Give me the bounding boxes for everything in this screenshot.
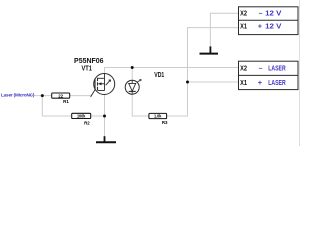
svg-text:Laser (MicroNC): Laser (MicroNC)	[1, 93, 35, 98]
wire: LED VD1 bottom lead down to R3 row	[132, 94, 149, 116]
wire: VT1 drain up and right to X2 -LASER	[105, 68, 239, 74]
svg-text:+: +	[258, 80, 262, 87]
svg-text:X2: X2	[240, 9, 247, 18]
node: input junction dot	[41, 94, 44, 97]
wire: VT1 source down to ground	[104, 95, 106, 137]
wire: R2 to source junction	[91, 115, 105, 117]
LED VD1	[125, 80, 141, 95]
resistor R2	[72, 113, 91, 125]
svg-text:+: +	[258, 24, 262, 31]
svg-text:LASER: LASER	[268, 66, 285, 73]
wire: +12V X1 row horizontal	[210, 27, 238, 29]
svg-text:R1: R1	[63, 99, 69, 104]
svg-text:12 V: 12 V	[265, 11, 282, 18]
svg-text:VT1: VT1	[81, 65, 92, 72]
node: LED top junction dot	[131, 66, 134, 69]
node: +LASER junction dot	[186, 81, 189, 84]
wire: input junction down to R2 row	[42, 96, 71, 116]
ground (top, near X2 -12V)	[200, 46, 219, 53]
svg-text:1.0k: 1.0k	[154, 114, 162, 119]
wire: junction to X1 +LASER	[188, 81, 239, 83]
svg-text:X1: X1	[240, 78, 247, 87]
svg-text:LASER: LASER	[268, 80, 285, 87]
wire: input net to R1	[29, 95, 52, 97]
svg-text:X1: X1	[240, 22, 247, 31]
wire: R1 to gate of VT1	[70, 95, 92, 97]
connector X1/X2 (LASER output)	[239, 61, 299, 89]
resistor R1	[52, 93, 70, 104]
wire: R3 right to +LASER junction riser	[167, 28, 211, 116]
svg-text:–: –	[259, 11, 263, 18]
svg-text:22: 22	[58, 93, 63, 98]
svg-text:100k: 100k	[77, 114, 86, 119]
transistor VT1 (N-MOSFET P55NF06)	[91, 74, 115, 97]
node: source junction dot	[103, 115, 106, 118]
svg-text:X2: X2	[240, 64, 247, 73]
wire: LED VD1 top lead	[131, 68, 133, 81]
svg-text:R3: R3	[162, 120, 168, 125]
svg-text:VD1: VD1	[154, 72, 164, 79]
svg-text:R2: R2	[84, 121, 90, 126]
ground (bottom, near VT1 source)	[96, 136, 116, 142]
resistor R3	[149, 113, 168, 124]
svg-text:P55NF06: P55NF06	[74, 56, 104, 65]
connector X1/X2 (12V power)	[239, 7, 299, 35]
right edge artifact line	[299, 0, 301, 146]
svg-text:12 V: 12 V	[265, 24, 282, 31]
svg-text:–: –	[259, 66, 263, 73]
wire: X2 -12V row to top ground	[210, 13, 238, 46]
